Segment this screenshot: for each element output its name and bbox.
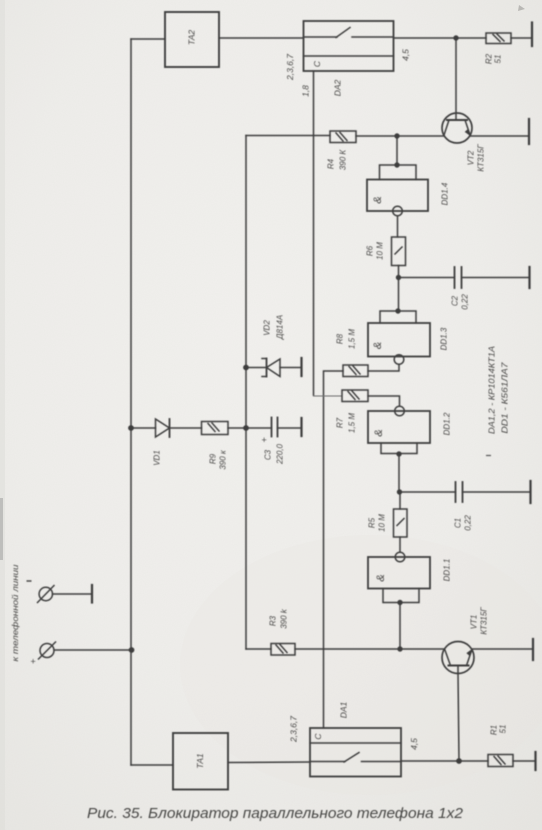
wire DA2 pin 4,5 to node xyxy=(394,37,487,39)
svg-text:Д814А: Д814А xyxy=(276,315,285,340)
svg-text:R3: R3 xyxy=(269,615,278,626)
wire R1 to ground xyxy=(513,760,535,762)
wire VT2 collector xyxy=(455,38,457,120)
svg-text:10 М: 10 М xyxy=(378,514,387,532)
node R6/C2 xyxy=(396,275,401,280)
svg-text:R7: R7 xyxy=(336,417,345,428)
wire base rail y136 xyxy=(246,135,444,138)
svg-text:1,8: 1,8 xyxy=(301,85,311,97)
node base rail VT1 xyxy=(397,646,402,651)
wire DA2 control line xyxy=(313,71,315,395)
wire VT1 collector xyxy=(458,666,459,762)
node R4/DD1.4 xyxy=(394,133,399,138)
svg-text:С2: С2 xyxy=(451,295,460,306)
wire node to C2 xyxy=(399,277,455,279)
transistor VT2 xyxy=(442,113,472,143)
ground bar (C2) xyxy=(528,267,530,288)
svg-text:DA2: DA2 xyxy=(333,79,343,96)
NAND gate DD1.2 xyxy=(368,406,430,453)
wire R5 to DD1.1 out xyxy=(399,537,401,552)
resistor R2 xyxy=(486,33,511,44)
svg-text:0,22: 0,22 xyxy=(464,515,473,531)
svg-text:+: + xyxy=(261,435,266,445)
svg-text:DD1.1: DD1.1 xyxy=(443,559,452,582)
wire R8 to DA1 control xyxy=(324,371,344,728)
wire R6 to node xyxy=(398,266,400,312)
svg-text:DA1,2 - КР1014КТ1А: DA1,2 - КР1014КТ1А xyxy=(487,346,497,434)
svg-text:С1: С1 xyxy=(454,518,463,528)
svg-text:VD2: VD2 xyxy=(263,320,272,336)
wire DD1.2 inputs to node C1 xyxy=(398,454,400,493)
svg-text:10 М: 10 М xyxy=(376,242,385,260)
zener diode VD2 xyxy=(246,359,302,377)
node DD1.4 input tie xyxy=(394,162,399,167)
svg-text:DD1.2: DD1.2 xyxy=(443,412,452,435)
svg-text:51: 51 xyxy=(494,55,503,64)
wire DD1.3 out to R8 xyxy=(368,364,399,371)
svg-text:С: С xyxy=(313,733,323,740)
svg-text:DD1.4: DD1.4 xyxy=(441,182,450,205)
wire R7 to DA2 control (faint) xyxy=(314,395,343,397)
terminal bar (C3) xyxy=(300,418,302,436)
svg-text:&: & xyxy=(373,429,385,436)
wire TA2 left to left bus xyxy=(131,38,165,40)
svg-text:R2: R2 xyxy=(485,53,494,64)
svg-text:R8: R8 xyxy=(336,333,345,344)
resistor R7 xyxy=(342,390,368,402)
NAND gate DD1.3 xyxy=(368,311,430,364)
wire R7 to DD1.2 out xyxy=(368,396,400,406)
node C1/R5 xyxy=(397,489,402,494)
terminal bar (VD2) xyxy=(300,358,302,376)
svg-text:R1: R1 xyxy=(490,725,499,735)
ground bar (VT1) xyxy=(532,639,534,660)
terminal (line -) xyxy=(38,586,93,603)
capacitor C3 xyxy=(246,418,302,437)
svg-text:2,3,6,7: 2,3,6,7 xyxy=(289,716,299,743)
svg-text:390 К: 390 К xyxy=(339,149,348,171)
wire DD1.1 inputs down xyxy=(399,603,401,650)
ground bar (C1) xyxy=(529,481,531,503)
svg-text:VD1: VD1 xyxy=(153,450,162,466)
telephone set box TA2 xyxy=(165,12,219,67)
svg-text:КТ315Г: КТ315Г xyxy=(477,144,486,172)
transistor VT1 xyxy=(442,642,474,674)
NAND gate DD1.4 xyxy=(367,165,428,216)
wire R2 to ground xyxy=(511,37,532,39)
capacitor C2 xyxy=(455,267,462,288)
wire TA1 to DA1 xyxy=(228,761,310,764)
node DD1.2 input tie xyxy=(396,451,401,456)
wire VT1 emitter to ground xyxy=(472,648,533,650)
wire node to R5 xyxy=(399,492,401,509)
opto-switch DA1 xyxy=(310,728,401,777)
ground bar (VT2) xyxy=(528,119,530,144)
svg-text:390 к: 390 к xyxy=(219,449,228,470)
svg-text:к телефонной линии: к телефонной линии xyxy=(11,564,20,662)
wire DD1.4 out to R6 xyxy=(397,216,399,237)
wire base rail y649 xyxy=(246,648,444,650)
svg-text:0,22: 0,22 xyxy=(461,294,470,310)
resistor R1 xyxy=(488,755,513,767)
ground bar (R1) xyxy=(534,752,536,770)
svg-text:1,5 М: 1,5 М xyxy=(348,329,357,349)
wire VT2 emitter to ground xyxy=(470,135,529,137)
svg-text:Рис. 35. Блокиратор параллельн: Рис. 35. Блокиратор параллельного телефо… xyxy=(87,806,463,822)
svg-text:&: & xyxy=(372,342,384,349)
wire DA1 to R1 xyxy=(401,760,488,762)
wire mid bus x246 xyxy=(245,136,247,650)
resistor R9 xyxy=(202,422,229,435)
terminal bar (line -) xyxy=(91,585,93,603)
svg-text:&: & xyxy=(375,574,387,581)
resistor R4 xyxy=(330,131,356,143)
wire left bus vertical xyxy=(130,39,132,765)
node line+ on left bus xyxy=(129,647,135,653)
svg-text:390 k: 390 k xyxy=(280,608,289,629)
svg-text:220,0: 220,0 xyxy=(276,443,285,465)
node junction at collector VT2 xyxy=(453,35,458,40)
svg-text:ТА2: ТА2 xyxy=(187,30,197,46)
opto-switch DA2 xyxy=(304,21,394,71)
svg-text:4,5: 4,5 xyxy=(409,738,419,750)
svg-text:+: + xyxy=(30,657,35,667)
svg-text:DA1: DA1 xyxy=(339,701,349,718)
svg-text:С: С xyxy=(312,60,322,67)
node DD1.3 input tie xyxy=(395,308,400,313)
resistor R8 xyxy=(343,365,368,377)
svg-text:DD1 - К561ЛА7: DD1 - К561ЛА7 xyxy=(500,362,510,433)
svg-text:1,5 М: 1,5 М xyxy=(348,413,357,433)
svg-text:ТА1: ТА1 xyxy=(195,753,205,769)
wire C2 to ground xyxy=(462,277,530,279)
svg-text:VT1: VT1 xyxy=(470,615,479,630)
polarity minus xyxy=(27,580,32,582)
svg-text:С3: С3 xyxy=(264,449,273,460)
terminal (line +) xyxy=(39,642,132,659)
stray dash xyxy=(486,455,491,457)
resistor R5 xyxy=(394,509,408,537)
svg-text:R4: R4 xyxy=(327,158,336,169)
node VD2 on mid bus xyxy=(243,365,249,371)
svg-text:R6: R6 xyxy=(366,245,375,256)
node VD1 on left bus xyxy=(128,425,134,431)
wire R9 to bus xyxy=(228,427,246,429)
node collector/R1 xyxy=(456,758,462,764)
node R9/C3 on mid bus xyxy=(243,425,249,431)
resistor R6 xyxy=(392,237,406,266)
svg-text:4,5: 4,5 xyxy=(401,49,411,61)
svg-text:КТ315Г: КТ315Г xyxy=(480,607,489,635)
svg-text:R5: R5 xyxy=(368,517,377,528)
svg-text:R9: R9 xyxy=(209,453,218,464)
resistor R3 xyxy=(271,644,295,656)
NAND gate DD1.1 xyxy=(368,552,430,602)
capacitor C1 xyxy=(456,482,463,502)
wire node to C1 xyxy=(400,491,456,493)
svg-text:2,3,6,7: 2,3,6,7 xyxy=(285,54,295,81)
telephone set box TA1 xyxy=(173,733,228,790)
svg-text:&: & xyxy=(372,196,384,203)
diode VD1 xyxy=(131,419,202,437)
ground bar (R2) xyxy=(531,23,533,47)
svg-text:51: 51 xyxy=(499,725,508,734)
wire left bus to TA1 xyxy=(131,764,173,766)
svg-text:VT2: VT2 xyxy=(467,150,476,165)
wire TA2 right to DA2 xyxy=(219,37,304,39)
node DD1.1 input tie xyxy=(397,600,402,605)
wire C1 to ground xyxy=(463,491,531,493)
svg-text:DD1.3: DD1.3 xyxy=(440,327,449,350)
wire node to DD1.4 inputs xyxy=(396,136,398,165)
